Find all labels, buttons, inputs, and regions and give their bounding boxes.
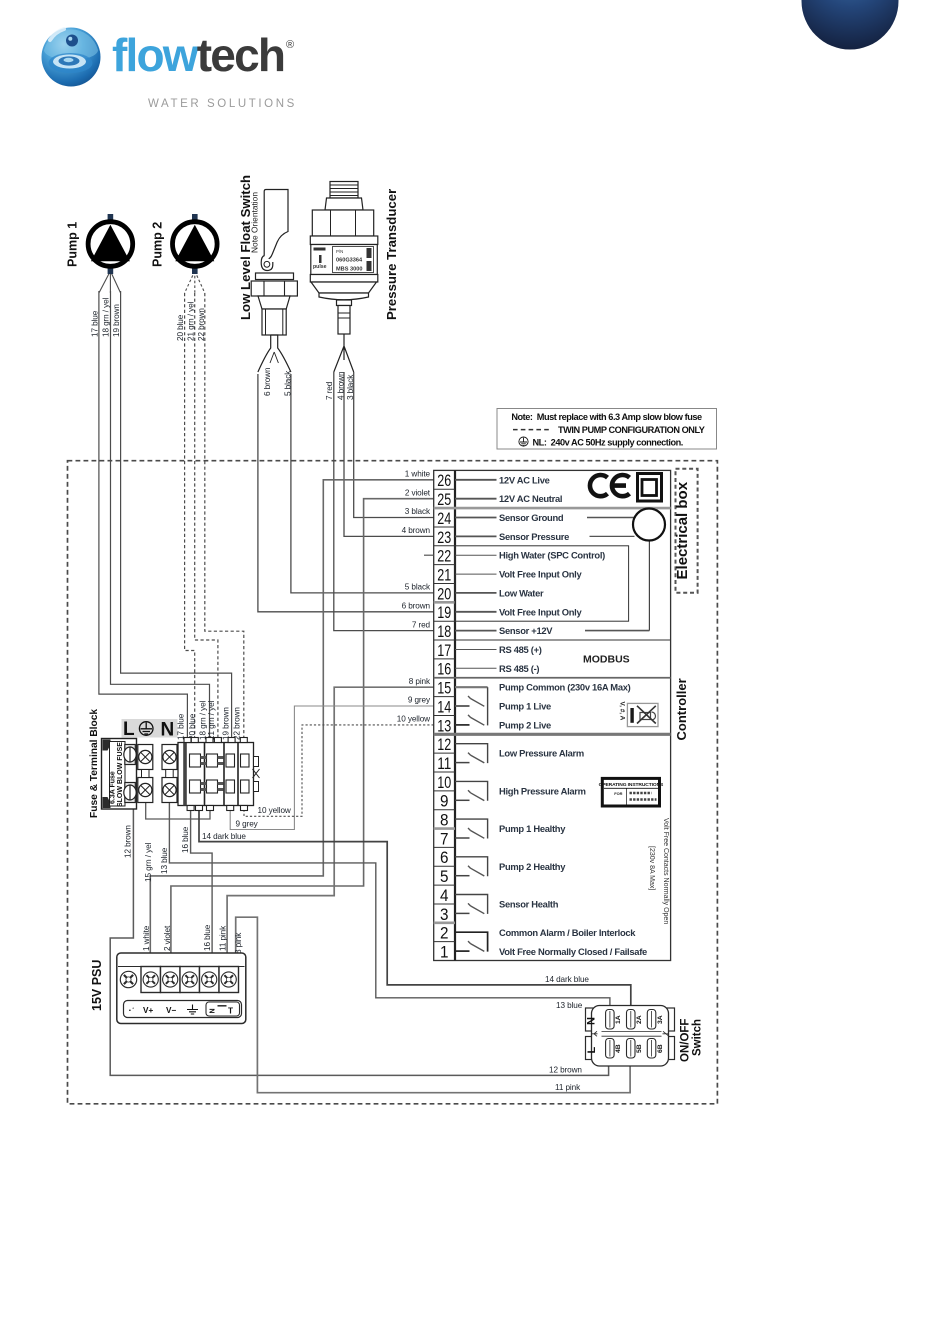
svg-text:2 violet: 2 violet [163, 925, 172, 951]
wire labels near terminal column [397, 470, 431, 724]
svg-text:5B: 5B [636, 1044, 643, 1053]
svg-text:13 blue: 13 blue [556, 1001, 583, 1010]
svg-text:WATER SOLUTIONS: WATER SOLUTIONS [148, 98, 297, 110]
switch contacts 1A 2A 3A / 4B 5B 6B [606, 1010, 656, 1059]
wire 9 grey (terminal 14 -> block) [230, 706, 434, 830]
svg-text:Fuse & Terminal Block: Fuse & Terminal Block [89, 709, 100, 818]
svg-text:Pump 2: Pump 2 [151, 222, 165, 267]
svg-text:22 brown: 22 brown [233, 707, 242, 740]
svg-text:15V PSU: 15V PSU [90, 960, 104, 1011]
svg-text:23: 23 [437, 528, 451, 547]
svg-text:7: 7 [440, 829, 449, 848]
wire 18 grn/yel (pump1 earth) [111, 291, 210, 744]
note box [497, 409, 717, 450]
svg-text:9: 9 [440, 792, 449, 811]
svg-text:8 pink: 8 pink [234, 932, 243, 954]
svg-text:3 black: 3 black [346, 374, 355, 400]
L / earth / N labels [122, 719, 178, 738]
svg-text:1 white: 1 white [405, 470, 431, 479]
right clip with X [254, 757, 259, 767]
15V PSU PS1 [90, 953, 246, 1024]
svg-text:2 violet: 2 violet [405, 488, 431, 497]
svg-text:17 blue: 17 blue [176, 713, 185, 740]
svg-text:Pump 1: Pump 1 [66, 222, 80, 267]
svg-text:Sensor Ground: Sensor Ground [499, 512, 564, 523]
svg-text:Pump 2 Healthy: Pump 2 Healthy [499, 861, 566, 872]
svg-text:4 brown: 4 brown [402, 526, 431, 535]
svg-text:12V AC Live: 12V AC Live [499, 474, 550, 485]
svg-text:3A: 3A [657, 1015, 664, 1024]
svg-text:pulse: pulse [313, 264, 327, 270]
svg-text:Volt Free Normally Closed / Fa: Volt Free Normally Closed / Failsafe [499, 946, 647, 957]
svg-text:19 brown: 19 brown [221, 707, 230, 740]
svg-text:High Water (SPC Control): High Water (SPC Control) [499, 550, 605, 561]
svg-text:▪ ˚: ▪ ˚ [129, 1007, 134, 1014]
svg-text:T: T [228, 1007, 233, 1016]
svg-text:▬▬: ▬▬ [218, 1003, 228, 1008]
square-in-square logo [638, 474, 662, 502]
svg-text:15: 15 [437, 679, 451, 698]
svg-text:Switch: Switch [692, 1019, 704, 1056]
svg-text:17 blue: 17 blue [91, 310, 100, 337]
svg-text:14: 14 [437, 697, 451, 716]
svg-text:18 grn / yel: 18 grn / yel [102, 297, 111, 337]
svg-text:11 pink: 11 pink [218, 925, 227, 951]
wire labels above terminal block (rotated) [176, 700, 241, 740]
svg-text:V+: V+ [143, 1006, 153, 1015]
svg-text:5 black: 5 black [283, 370, 292, 396]
svg-text:16 blue: 16 blue [203, 924, 212, 951]
fuse F1 6.3A + terminal block TB1 [89, 709, 260, 818]
svg-text:20: 20 [437, 584, 451, 603]
wire 7 red (transducer -> terminal 18) [334, 372, 434, 631]
contact K13 [455, 724, 470, 726]
svg-text:26: 26 [437, 471, 451, 490]
svg-text:FOR: FOR [614, 791, 622, 796]
svg-text:®: ® [286, 39, 294, 51]
group separators [434, 602, 455, 922]
svg-text:Sensor +12V: Sensor +12V [499, 625, 553, 636]
terminal module B [162, 745, 177, 803]
svg-text:21 grn / yel: 21 grn / yel [187, 301, 196, 341]
svg-text:11 pink: 11 pink [555, 1083, 581, 1092]
wire 10 yellow (terminal 13 -> block, dashed) [244, 725, 434, 816]
svg-text:Sensor Pressure: Sensor Pressure [499, 531, 569, 542]
svg-text:6.3A Fuse: 6.3A Fuse [110, 771, 117, 804]
wire 4 brown (transducer -> terminal 23) [344, 372, 434, 536]
svg-text:6 brown: 6 brown [263, 367, 272, 396]
wire 16 blue (block -> PSU N) [191, 806, 213, 968]
svg-text:10 yellow: 10 yellow [258, 806, 291, 815]
svg-text:Pump Common (230v 16A Max): Pump Common (230v 16A Max) [499, 682, 631, 693]
svg-text:ON/OFF: ON/OFF [680, 1019, 692, 1062]
svg-text:MBS 3000: MBS 3000 [336, 267, 362, 273]
ON/OFF switch S2 [586, 1006, 704, 1067]
svg-text:Controller: Controller [674, 678, 689, 740]
contact 12/11 [455, 744, 488, 763]
svg-text:2A: 2A [636, 1015, 643, 1024]
svg-text:Low Pressure Alarm: Low Pressure Alarm [499, 748, 584, 759]
contact 10/9 [455, 781, 488, 800]
svg-text:21 grn / yel: 21 grn / yel [207, 700, 216, 740]
svg-text:17: 17 [437, 641, 451, 660]
sensor connector circle + wires [585, 518, 649, 631]
svg-text:Common Alarm / Boiler Interloc: Common Alarm / Boiler Interlock [499, 927, 636, 938]
svg-text:25: 25 [437, 490, 451, 509]
svg-text:Pump 2 Live: Pump 2 Live [499, 719, 551, 730]
low level float switch S1 [238, 175, 297, 372]
wire labels under fuse/terminal block (rotated) [124, 825, 243, 954]
contact 2/1 [455, 932, 488, 951]
svg-text:P/N: P/N [336, 249, 343, 254]
pressure transducer B1 [310, 182, 399, 373]
wire 1 white (terminal 26 -> PSU V+) [150, 480, 433, 968]
terminal row stubs [455, 480, 497, 669]
pump live contact bus (15->14,13) [455, 686, 488, 688]
svg-text:7 red: 7 red [412, 620, 431, 629]
contact 4/3 [455, 895, 488, 914]
svg-text:22: 22 [437, 547, 451, 566]
svg-text:14 dark blue: 14 dark blue [202, 832, 246, 841]
svg-text:Pump 1 Healthy: Pump 1 Healthy [499, 823, 566, 834]
svg-text:6B: 6B [657, 1044, 664, 1053]
wire 20 blue (pump2, dashed) [185, 293, 195, 744]
svg-text:10: 10 [437, 773, 451, 792]
svg-text:2: 2 [440, 924, 449, 943]
top-right decorative sphere [802, 0, 899, 50]
svg-text:20 blue: 20 blue [176, 314, 185, 341]
svg-text:060G3364: 060G3364 [336, 258, 363, 264]
flowtech logo [42, 28, 297, 111]
svg-text:21: 21 [437, 566, 451, 585]
svg-text:12 brown: 12 brown [124, 825, 133, 858]
svg-text:1A: 1A [615, 1015, 622, 1024]
controller terminal strip outline [434, 470, 671, 960]
wire labels mid-run (horizontal) [202, 806, 589, 1092]
row dividers (number column) [434, 489, 455, 941]
svg-text:6 brown: 6 brown [402, 602, 431, 611]
svg-text:19: 19 [437, 603, 451, 622]
pump2 wire fan (dashed) [185, 271, 205, 293]
stub left of terminal 22 [424, 554, 434, 556]
svg-text:18 grn / yel: 18 grn / yel [198, 700, 207, 740]
pump1 wire fan [99, 271, 121, 293]
svg-text:Volt Free Input Only: Volt Free Input Only [499, 569, 582, 580]
svg-text:N: N [586, 1017, 598, 1025]
svg-text:7 red: 7 red [325, 381, 334, 400]
wire 22 brown (pump2, dashed) [205, 293, 244, 744]
svg-text:Volt Free Input Only: Volt Free Input Only [499, 606, 582, 617]
wire 14 dark blue (block -> ON/OFF switch 2A) [199, 806, 631, 1007]
terminal numbers 26..1 [437, 471, 451, 961]
svg-text:22 brown: 22 brown [197, 308, 206, 341]
main terminal block [178, 738, 260, 811]
Electrical box label [674, 469, 698, 593]
operating instructions plate [599, 778, 664, 806]
svg-text:13: 13 [437, 716, 451, 735]
wire 17 blue (pump1 -> terminal block L) [99, 291, 187, 744]
svg-text:Pump 1 Live: Pump 1 Live [499, 701, 551, 712]
svg-text:5 black: 5 black [405, 583, 431, 592]
svg-text:L: L [123, 719, 135, 740]
svg-text:N: N [161, 720, 175, 741]
wire 3 black (transducer -> terminal 24) [354, 372, 434, 518]
tabs bottom [187, 806, 247, 811]
pump P1 [66, 214, 133, 274]
no-mains icon [627, 703, 658, 726]
svg-text:Volt Free Contacts Normally Op: Volt Free Contacts Normally Open [662, 818, 669, 924]
svg-text:OPERATING INSTRUCTIONS: OPERATING INSTRUCTIONS [599, 782, 664, 788]
wire 12 brown (fuse -> ON/OFF switch L) [110, 808, 608, 1075]
svg-text:High Pressure Alarm: High Pressure Alarm [499, 785, 586, 796]
svg-text:RS 485 (-): RS 485 (-) [499, 663, 539, 674]
wire 2 violet (terminal 25 -> PSU V-) [171, 499, 434, 968]
svg-text:V, #, A: V, #, A [619, 702, 626, 721]
electrical box dashed boundary [68, 461, 718, 1104]
wire 15 grn/yel (module A -> block earth link) [146, 802, 210, 819]
svg-text:[230v 8A Max]: [230v 8A Max] [648, 846, 655, 890]
svg-text:RS 485 (+): RS 485 (+) [499, 644, 542, 655]
svg-text:18: 18 [437, 622, 451, 641]
contact 8/7 [455, 819, 488, 838]
svg-text:MODBUS: MODBUS [583, 654, 630, 666]
svg-text:4: 4 [440, 886, 449, 905]
svg-text:12V AC Neutral: 12V AC Neutral [499, 493, 562, 504]
svg-text:Low Water: Low Water [499, 587, 544, 598]
svg-text:SLOW BLOW FUSE: SLOW BLOW FUSE [117, 742, 124, 807]
svg-text:16 blue: 16 blue [181, 826, 190, 853]
svg-text:V−: V− [166, 1006, 176, 1015]
svg-text:3: 3 [440, 905, 449, 924]
terminal module A [138, 745, 153, 803]
svg-text:Note Orientation: Note Orientation [249, 192, 259, 253]
PSU screw terminals pins 1-5 [143, 972, 236, 987]
svg-text:15 grn / yel: 15 grn / yel [144, 842, 153, 882]
CE mark [590, 475, 630, 496]
wire 5 black (float switch -> terminal 20) [291, 374, 434, 593]
wire 11 pink (PSU L -> ON/OFF switch 5B) [236, 917, 630, 1092]
svg-text:6: 6 [440, 848, 449, 867]
svg-text:14 dark blue: 14 dark blue [545, 975, 589, 984]
wire 8 pink (terminal 15 -> PSU L) [227, 687, 434, 966]
terminal labels [499, 474, 647, 957]
svg-text:Note: Must replace with 6.3 A: Note: Must replace with 6.3 Amp slow blo… [511, 412, 702, 422]
contact K14 [455, 705, 470, 707]
svg-text:20 blue: 20 blue [188, 713, 197, 740]
pump P2 [151, 214, 218, 274]
svg-text:Electrical box: Electrical box [674, 481, 691, 579]
svg-text:Pressure Transducer: Pressure Transducer [384, 189, 399, 320]
wire entry tabs top [184, 738, 247, 743]
svg-text:11: 11 [437, 754, 451, 773]
fuse body [102, 739, 137, 810]
svg-text:4B: 4B [615, 1044, 622, 1053]
svg-text:12: 12 [437, 735, 451, 754]
svg-text:flowtech: flowtech [112, 29, 284, 81]
svg-text:NL: 240v AC 50Hz supply conne: NL: 240v AC 50Hz supply connection. [533, 438, 683, 448]
svg-text:24: 24 [437, 509, 451, 528]
svg-text:3 black: 3 black [405, 507, 431, 516]
wire 13 blue (module B -> ON/OFF switch 1A) [169, 802, 610, 1007]
svg-text:TWIN PUMP CONFIGURATION ONLY: TWIN PUMP CONFIGURATION ONLY [558, 425, 705, 435]
svg-text:9 grey: 9 grey [408, 696, 431, 705]
svg-text:L: L [586, 1047, 598, 1054]
svg-text:16: 16 [437, 660, 451, 679]
svg-text:1 white: 1 white [142, 925, 151, 951]
svg-text:1: 1 [440, 943, 449, 962]
svg-text:N: N [210, 1008, 217, 1013]
svg-text:5: 5 [440, 867, 449, 886]
wire 6 brown (float switch -> terminal 19) [258, 374, 434, 612]
svg-text:10 yellow: 10 yellow [397, 715, 430, 724]
svg-text:4 brown: 4 brown [336, 371, 345, 400]
wire 19 brown (pump1 -> block N) [121, 291, 232, 744]
wire 21 grn/yel (pump2, dashed) [195, 293, 218, 744]
svg-text:Sensor Health: Sensor Health [499, 899, 559, 910]
label box around terminals 22-19 [455, 546, 629, 621]
svg-text:19 brown: 19 brown [112, 304, 121, 337]
contact 6/5 [455, 857, 488, 876]
wire labels: pump1 cable [91, 297, 355, 400]
svg-text:8: 8 [440, 811, 449, 830]
volt-free contacts K12-K1 [455, 744, 488, 952]
svg-text:13 blue: 13 blue [160, 847, 169, 874]
svg-text:9 grey: 9 grey [236, 820, 259, 829]
svg-text:12 brown: 12 brown [549, 1066, 582, 1075]
svg-text:8 pink: 8 pink [409, 677, 431, 686]
